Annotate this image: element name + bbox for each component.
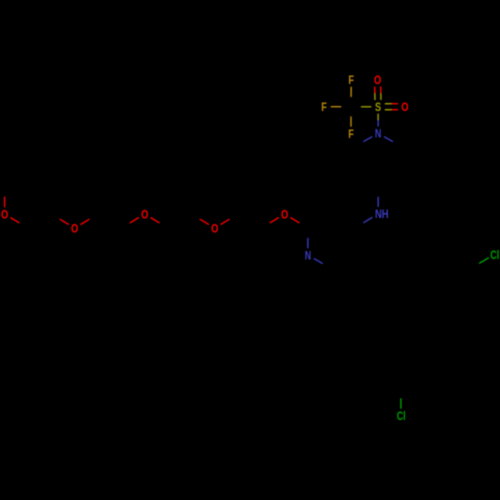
bond C2-N1 piperidine <box>384 137 401 147</box>
bond N1-C6 piperidine <box>355 137 372 147</box>
bond phenylB-Cl <box>400 389 402 409</box>
bond C6-C5 pyridine <box>331 255 354 269</box>
bond phenylA-Cl <box>470 258 489 269</box>
ring B bond <box>401 375 424 389</box>
bond O4-CH2 <box>221 214 238 225</box>
bond CH2-O5 <box>261 218 278 229</box>
svg-text:O: O <box>401 100 408 114</box>
ring A bond <box>466 269 470 295</box>
bond N1-C6 pyridine <box>314 258 332 268</box>
bond CH-phenylB <box>395 308 401 335</box>
bond C3-C2 piperidine <box>401 147 403 174</box>
svg-text:NH: NH <box>375 207 389 221</box>
bond O2-CH2 <box>80 214 98 225</box>
ring B bond <box>401 335 424 349</box>
bond C6-C5 piperidine <box>354 147 356 174</box>
bond CH2-CH <box>378 296 395 308</box>
ring A bond <box>442 295 465 309</box>
svg-text:Cl: Cl <box>397 409 406 423</box>
bond CH2-CH2 <box>168 214 191 228</box>
svg-text:O: O <box>1 207 8 221</box>
ring A bond <box>419 255 442 269</box>
bond O3-CH2 <box>151 218 168 229</box>
svg-text:F: F <box>321 100 327 114</box>
bond CH2-O4 <box>191 214 208 225</box>
svg-text:N: N <box>305 248 311 262</box>
bond C3-C2 pyridine <box>308 215 331 229</box>
bond CH2-O3 <box>121 218 138 229</box>
double bond S=O right <box>385 104 398 110</box>
bond N-S sulfonamide <box>377 114 379 127</box>
svg-text:O: O <box>71 221 78 235</box>
ring B bond <box>423 348 425 375</box>
bond CH3-O1 <box>4 187 6 208</box>
bond CH-phenylA <box>395 295 419 308</box>
svg-text:O: O <box>281 207 288 221</box>
bond C5-C4 piperidine <box>355 174 378 188</box>
bond C2-N1 pyridine <box>307 228 309 248</box>
bond CH2-O2 <box>51 214 68 225</box>
bond C5-C4 pyridine <box>354 228 356 255</box>
bond C6(pyridine)-CH2 <box>331 269 354 283</box>
bond CH2-CH2 <box>98 214 121 228</box>
bond CH2-CH2 <box>355 282 378 296</box>
bond O5-C2 pyridine <box>290 218 307 229</box>
svg-text:S: S <box>375 100 381 114</box>
bond NH-C4 piperidine <box>377 187 379 207</box>
bond S-CF3 <box>351 106 371 108</box>
double bond S=O top <box>375 87 381 101</box>
ring A bond <box>418 268 420 295</box>
ring B bond <box>378 335 401 349</box>
ring B bond <box>377 348 379 375</box>
bond C-F top <box>350 87 352 107</box>
svg-text:O: O <box>374 73 381 87</box>
bond C-F bottom <box>350 107 352 127</box>
ring A bond <box>419 295 442 309</box>
svg-text:F: F <box>348 73 354 87</box>
svg-text:F: F <box>348 127 354 141</box>
bond CH2-CH2 <box>238 214 261 228</box>
bond C-F left <box>331 106 351 108</box>
bond C4(pyridine)-NH <box>355 217 373 228</box>
bond C4-C3 pyridine <box>331 215 354 229</box>
ring B bond <box>378 375 401 389</box>
svg-text:O: O <box>141 207 148 221</box>
svg-text:N: N <box>375 127 381 141</box>
bond O1-CH2 <box>10 218 27 229</box>
svg-text:Cl: Cl <box>490 248 499 262</box>
ring A bond <box>442 255 470 269</box>
bond CH2-CH2 <box>28 214 51 228</box>
svg-text:O: O <box>211 221 218 235</box>
bond C4-C3 piperidine <box>378 174 401 188</box>
